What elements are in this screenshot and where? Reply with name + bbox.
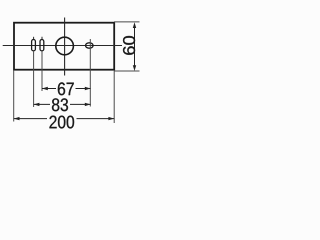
slot 1 — [32, 40, 36, 51]
top extension line 60 — [114, 21, 140, 23]
slot 2 extension line — [41, 51, 43, 91]
arrow 200 left — [14, 117, 20, 120]
arrow 83 left — [34, 103, 40, 106]
horizontal centerline — [3, 45, 122, 47]
arrow 83 right — [85, 103, 91, 106]
left extension line 200 — [13, 70, 15, 122]
label 67 — [58, 82, 74, 95]
dimension line 83 right — [70, 103, 91, 105]
arrow 60 up — [133, 22, 136, 28]
dimension line 67 right — [76, 88, 91, 90]
arrow 67 right — [85, 87, 91, 90]
plate outline — [14, 23, 114, 70]
bottom extension line 60 — [114, 70, 140, 72]
label 60 — [123, 36, 135, 55]
arrow 60 down — [133, 65, 136, 71]
circle hole — [56, 37, 74, 55]
arrow 200 right — [108, 117, 114, 120]
slot 1 extension line — [33, 51, 35, 107]
small ellipse hole — [86, 43, 94, 48]
slot 1 centerline tick top — [33, 37, 35, 40]
dimension line 60 — [134, 24, 136, 69]
dimension line 200 left — [14, 118, 47, 120]
label 83 — [52, 98, 68, 111]
vertical centerline circle — [64, 18, 66, 76]
right extension line 200 — [113, 70, 115, 123]
ellipse centerline / extension line — [89, 39, 91, 107]
dimension line 67 left — [42, 88, 56, 90]
slot 2 — [40, 40, 44, 51]
arrow 67 left — [42, 87, 48, 90]
slot 2 centerline tick top — [41, 37, 43, 40]
label 200 — [49, 116, 74, 129]
dimension line 200 right — [77, 118, 115, 120]
dimension line 83 left — [34, 103, 50, 105]
